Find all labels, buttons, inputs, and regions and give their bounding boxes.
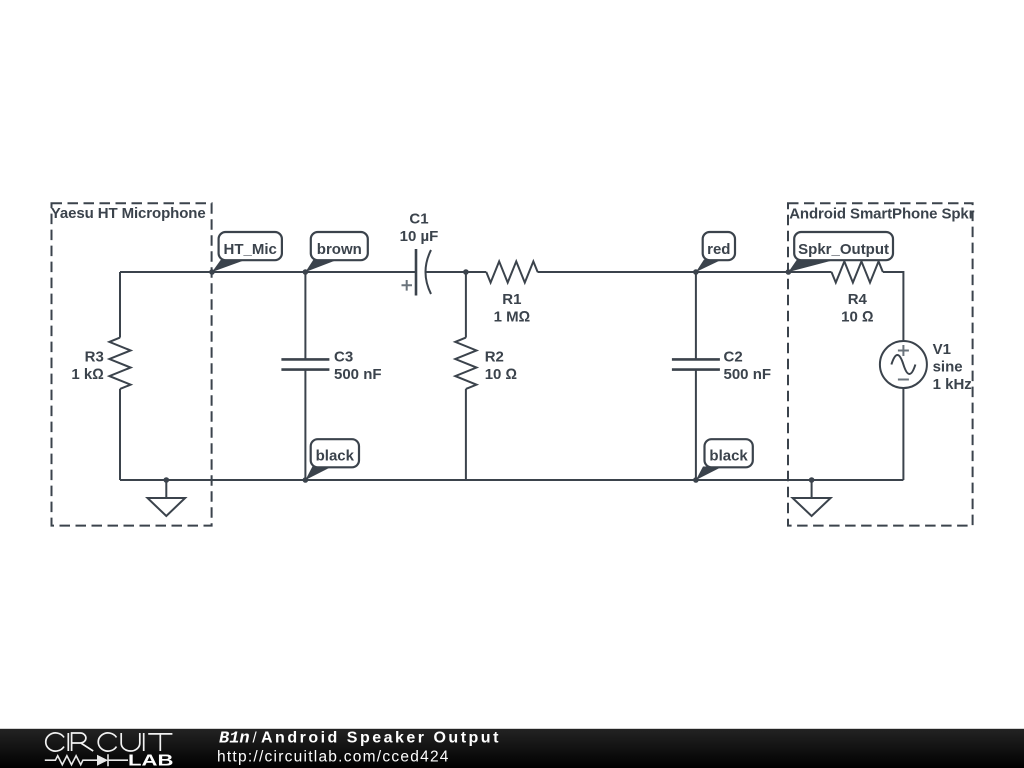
svg-text:R2: R2 xyxy=(485,348,504,365)
enclosure box Yaesu HT Microphone xyxy=(51,203,212,525)
svg-text:brown: brown xyxy=(317,241,362,258)
node dot HT_Mic xyxy=(209,269,215,275)
resistor R1 xyxy=(486,261,537,325)
wire left branch vertical (to R3) xyxy=(119,272,121,338)
wire C2 branch vertical upper xyxy=(695,272,697,359)
svg-text:Spkr_Output: Spkr_Output xyxy=(798,241,889,258)
voltage source V1 xyxy=(880,341,972,393)
capacitor C2 xyxy=(672,348,771,383)
net flag Spkr_Output xyxy=(788,232,893,272)
net flag brown xyxy=(305,232,367,272)
capacitor C3 xyxy=(281,348,381,383)
footer bar background xyxy=(0,729,1024,768)
svg-text:B1n: B1n xyxy=(219,729,250,748)
svg-text:500 nF: 500 nF xyxy=(724,366,772,383)
svg-text:red: red xyxy=(707,241,730,258)
svg-text:10 Ω: 10 Ω xyxy=(841,309,873,326)
svg-text:black: black xyxy=(709,447,748,464)
net flag black (right) xyxy=(696,439,753,480)
node dot bottom right ground xyxy=(809,477,815,483)
svg-text:Android SmartPhone Spkr: Android SmartPhone Spkr xyxy=(789,206,974,223)
node dot bottom black right xyxy=(693,477,699,483)
svg-text:10 Ω: 10 Ω xyxy=(485,366,517,383)
svg-text:sine: sine xyxy=(933,359,963,376)
enclosure box Android SmartPhone Spkr xyxy=(788,203,975,525)
svg-text:500 nF: 500 nF xyxy=(334,366,382,383)
svg-text:1 MΩ: 1 MΩ xyxy=(494,309,531,326)
node dot Spkr_Output xyxy=(786,269,792,275)
node dot bottom black left xyxy=(303,477,309,483)
ground right xyxy=(793,480,831,516)
node dot brown xyxy=(303,269,309,275)
node dot bottom left ground xyxy=(164,477,170,483)
svg-text:1 kΩ: 1 kΩ xyxy=(71,366,103,383)
svg-text:LAB: LAB xyxy=(128,753,173,768)
svg-text:C1: C1 xyxy=(409,211,428,228)
wire C3 branch vertical lower xyxy=(304,370,306,480)
svg-text:R1: R1 xyxy=(502,291,521,308)
wire C3 branch vertical upper xyxy=(304,272,306,359)
node dot red xyxy=(693,269,699,275)
svg-text:black: black xyxy=(316,447,355,464)
net flag black (left) xyxy=(305,439,359,480)
wire R2 branch vertical lower xyxy=(465,389,467,480)
svg-text:C2: C2 xyxy=(724,348,743,365)
svg-text:10 µF: 10 µF xyxy=(400,228,439,245)
resistor R4 xyxy=(832,261,883,325)
wire R2 branch vertical upper xyxy=(465,272,467,338)
logo resistor-diode squiggle xyxy=(45,754,128,766)
wire bottom rail xyxy=(120,479,903,481)
wire top rail left segment (node HT_Mic to C1 left plate) xyxy=(120,271,416,273)
svg-text:1 kHz: 1 kHz xyxy=(933,376,972,393)
wire C2 branch vertical lower xyxy=(695,370,697,480)
wire top rail (R1 to Spkr_Output node) xyxy=(538,271,832,273)
wire top rail right segment (C1 to R1 lead) xyxy=(426,271,487,273)
net flag HT_Mic xyxy=(212,232,282,272)
svg-text:R4: R4 xyxy=(848,291,868,308)
resistor R3 xyxy=(71,338,130,389)
capacitor C1 (polarized) xyxy=(400,211,439,296)
svg-text:R3: R3 xyxy=(85,348,104,365)
svg-text:Yaesu HT Microphone: Yaesu HT Microphone xyxy=(51,205,206,222)
node dot after C1 xyxy=(463,269,469,275)
wire top rail far right and down to V1 top xyxy=(883,272,904,341)
svg-text:C3: C3 xyxy=(334,348,353,365)
svg-text:V1: V1 xyxy=(933,341,951,358)
footer title line: B1n / Android Speaker Output xyxy=(219,729,501,748)
ground left xyxy=(148,480,186,516)
resistor R2 xyxy=(455,338,517,389)
logo CIRCUIT lettering xyxy=(46,733,173,751)
net flag red xyxy=(696,232,735,272)
svg-text:Android Speaker Output: Android Speaker Output xyxy=(261,729,501,746)
wire left branch vertical lower (R3 to bottom rail) xyxy=(119,389,121,480)
wire V1 bottom to bottom rail xyxy=(902,388,904,480)
svg-text:HT_Mic: HT_Mic xyxy=(224,241,277,258)
svg-text:http://circuitlab.com/cced424: http://circuitlab.com/cced424 xyxy=(217,748,450,765)
